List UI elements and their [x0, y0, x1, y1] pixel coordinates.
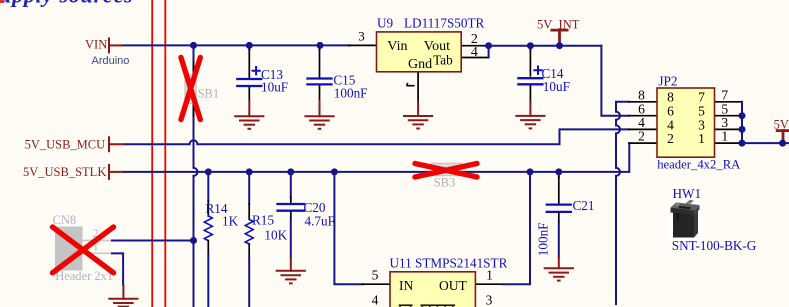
svg-text:HW1: HW1 — [673, 186, 702, 201]
svg-text:3: 3 — [358, 29, 365, 44]
junction VIN/SB1 — [190, 42, 197, 49]
wire CN8 pin1 to gnd — [112, 253, 123, 284]
svg-text:U9: U9 — [377, 16, 394, 31]
red X over SB3 — [415, 164, 477, 178]
svg-text:5: 5 — [372, 267, 379, 282]
junction JP2 pin5 — [739, 112, 746, 119]
svg-text:5V_USB_MCU: 5V_USB_MCU — [25, 137, 106, 151]
ground under U9 — [403, 116, 433, 129]
regulator U9 body — [377, 32, 462, 72]
C14 plus — [534, 67, 542, 74]
svg-text:3: 3 — [486, 293, 493, 307]
wire JP2 right bus — [742, 102, 789, 143]
junction CN8 pin2/SB1 riser — [190, 237, 197, 244]
svg-text:OUT: OUT — [439, 278, 467, 293]
capacitor C21 — [558, 172, 560, 177]
red X over SB1 — [181, 58, 200, 120]
svg-text:1K: 1K — [222, 213, 239, 228]
ground under C14 — [515, 116, 545, 128]
jumper HW1 icon — [667, 200, 703, 241]
capacitor C14 legs — [529, 46, 531, 50]
U9 pin 3 — [349, 44, 377, 46]
U9 pin1 rotated designator — [407, 83, 415, 86]
resistor R14 — [207, 172, 209, 201]
svg-text:10uF: 10uF — [261, 80, 288, 95]
svg-text:header_4x2_RA: header_4x2_RA — [657, 157, 741, 171]
C13 plus — [253, 67, 260, 74]
ground under C20 — [276, 271, 306, 284]
capacitor C14 plates — [518, 77, 542, 79]
svg-text:4: 4 — [471, 45, 478, 60]
wire 5V_INT to JP2 pin6 — [601, 46, 629, 116]
capacitor C13 plates — [237, 78, 261, 80]
capacitor C15 plates — [308, 77, 332, 79]
svg-text:C21: C21 — [573, 198, 595, 213]
svg-text:JP2: JP2 — [658, 74, 677, 89]
capacitor C20 — [290, 172, 292, 198]
junction STLK/R14 — [205, 168, 212, 175]
svg-text:4.7uF: 4.7uF — [305, 213, 335, 228]
JP2 left pins — [629, 101, 657, 103]
power 5V_INT stem — [558, 30, 561, 46]
ground under CN8 pin1 — [108, 299, 138, 307]
svg-text:8: 8 — [638, 87, 645, 102]
svg-text:Supply sources: Supply sources — [0, 0, 134, 7]
U9 gnd pin — [417, 72, 419, 102]
port VIN stub — [109, 44, 123, 46]
svg-text:2: 2 — [638, 129, 645, 144]
svg-text:1: 1 — [486, 267, 493, 282]
svg-text:Vin: Vin — [387, 39, 407, 54]
svg-text:LD1117S50TR: LD1117S50TR — [404, 16, 485, 31]
svg-text:R15: R15 — [252, 213, 274, 228]
capacitor C13 legs — [248, 45, 250, 49]
CN8 gray pins — [83, 240, 114, 242]
U9 pin 4 — [461, 57, 487, 59]
svg-text:5V_USB_STLK: 5V_USB_STLK — [23, 165, 106, 179]
wire pin4 to pin2 — [488, 46, 490, 58]
port VIN tick — [108, 38, 110, 52]
header JP2 body — [657, 88, 715, 157]
U9 pin 2 — [461, 45, 487, 47]
JP2 right pins — [715, 101, 743, 103]
junction STLK/U11-OUT riser — [527, 168, 534, 175]
capacitor C15 legs — [319, 45, 321, 49]
junction 5V_INT power port — [556, 42, 563, 49]
svg-text:CN8: CN8 — [53, 213, 77, 227]
svg-text:7: 7 — [698, 90, 705, 105]
wire VIN main — [123, 44, 350, 46]
svg-text:Arduino: Arduino — [92, 55, 130, 67]
svg-text:4: 4 — [372, 293, 379, 307]
wire CN8 pin2 — [112, 240, 194, 242]
SB1 pin segments — [193, 62, 195, 75]
junction STLK/R15 — [246, 168, 253, 175]
svg-text:5V_INT: 5V_INT — [537, 18, 580, 32]
power 5V_INT bar — [552, 29, 567, 32]
svg-text:Header 2x1: Header 2x1 — [55, 269, 113, 283]
port 5V_USB_STLK stub — [109, 171, 124, 173]
power 5V bar — [777, 129, 789, 132]
junction VIN/C15 — [317, 42, 324, 49]
svg-text:1: 1 — [721, 129, 728, 144]
ground under C13 — [234, 116, 264, 129]
svg-text:SB1: SB1 — [198, 87, 220, 101]
wire SB1 riser with hops — [194, 45, 198, 307]
svg-text:Gnd: Gnd — [408, 57, 432, 72]
svg-text:1: 1 — [698, 131, 705, 146]
svg-text:100nF: 100nF — [334, 85, 368, 100]
solder bridge SB3 pad — [432, 163, 462, 176]
wire U11 IN riser — [334, 172, 362, 284]
connector CN8 body (grayed) — [55, 227, 83, 271]
wire 5V_USB_MCU — [124, 129, 629, 144]
wire 5V_USB_STLK — [124, 143, 630, 172]
wire top right — [485, 45, 602, 47]
junction STLK/U11-IN — [331, 168, 338, 175]
port 5V_USB_STLK tick — [108, 165, 110, 179]
svg-text:IN: IN — [399, 278, 413, 293]
svg-text:7: 7 — [721, 87, 728, 102]
solder bridge SB1 pad — [185, 75, 196, 103]
page boundary red line 2 — [164, 0, 166, 307]
wire JP2 pin8 riser with hops — [616, 102, 629, 304]
U11 inner dashes — [399, 304, 455, 307]
svg-text:Tab: Tab — [433, 52, 453, 67]
junction U9 pin2/pin4 — [485, 42, 492, 49]
U11 pin 5 — [363, 283, 390, 285]
U11 pin 1 — [475, 283, 503, 285]
resistor R15 — [248, 172, 250, 204]
port 5V_USB_MCU stub — [109, 143, 124, 145]
svg-text:10K: 10K — [264, 228, 287, 243]
svg-text:VIN: VIN — [85, 37, 107, 51]
svg-text:8: 8 — [667, 90, 674, 105]
page boundary red line 1 — [151, 0, 153, 307]
power 5V stem — [782, 131, 785, 144]
junction JP2 pin3 — [739, 126, 746, 133]
svg-text:SB3: SB3 — [434, 175, 456, 189]
junction VIN/C13 — [246, 42, 253, 49]
ground under C15 — [304, 116, 334, 129]
junction STLK/C20 — [287, 168, 294, 175]
svg-text:10uF: 10uF — [543, 79, 570, 94]
svg-text:100nF: 100nF — [536, 222, 551, 256]
junction STLK/C21 — [555, 168, 562, 175]
wire U11 OUT riser — [503, 172, 530, 284]
ground under C21 — [544, 268, 574, 280]
svg-text:5V: 5V — [774, 118, 789, 132]
red X over CN8 — [53, 227, 114, 273]
junction 5V power port — [779, 140, 786, 147]
U11 body — [390, 272, 475, 307]
junction JP2 pin1 — [739, 140, 746, 147]
port 5V_USB_MCU tick — [108, 137, 110, 151]
svg-text:2: 2 — [667, 131, 674, 146]
junction 5V_INT/C14 — [527, 42, 534, 49]
